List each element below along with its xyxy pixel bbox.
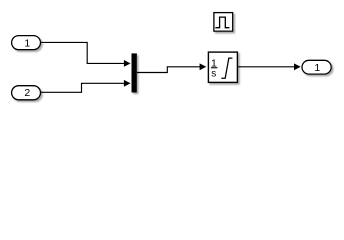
- mux block: [132, 53, 137, 92]
- inport In1: [12, 36, 41, 50]
- svg-text:1: 1: [314, 62, 320, 74]
- pulse generator block: [214, 13, 233, 32]
- svg-text:1: 1: [24, 38, 30, 50]
- outport Out1: [302, 60, 331, 74]
- wire In2 to Mux: [41, 80, 131, 92]
- integrator block 1/s: [208, 52, 237, 82]
- inport In2: [12, 86, 41, 100]
- svg-text:s: s: [211, 68, 216, 79]
- wire In1 to Mux: [41, 42, 131, 66]
- svg-text:2: 2: [24, 87, 30, 99]
- wire Mux to Integrator: [137, 63, 206, 72]
- wire Integrator to Out1: [238, 63, 301, 70]
